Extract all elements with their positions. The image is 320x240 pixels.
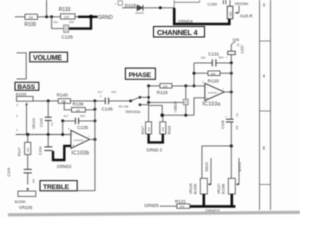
svg-text:NJM4580: NJM4580 <box>208 92 218 94</box>
svg-text:B100K: B100K <box>222 183 226 194</box>
svg-text:7: 7 <box>88 135 90 138</box>
svg-text:R120: R120 <box>208 78 220 83</box>
svg-text:VR104b: VR104b <box>234 2 248 6</box>
svg-text:+: + <box>206 96 208 100</box>
wire input left top <box>15 16 25 18</box>
wire bass long horizontal <box>16 134 71 136</box>
wiper bass arrow <box>25 102 28 134</box>
svg-text:C138: C138 <box>174 105 178 112</box>
svg-text:C135: C135 <box>77 125 88 130</box>
svg-text:C125: C125 <box>62 35 74 41</box>
wire into diode <box>122 7 137 9</box>
svg-text:TREBLE: TREBLE <box>43 184 70 191</box>
svg-text:C136: C136 <box>221 120 225 129</box>
node CH5 arrow <box>231 38 239 44</box>
svg-text:B100K: B100K <box>16 92 27 96</box>
svg-text:GRND 3: GRND 3 <box>146 147 162 152</box>
wire right bus <box>230 63 232 146</box>
wire thick GRND3 U <box>149 134 163 142</box>
capacitor C128 top edge stub <box>115 1 123 6</box>
wire thick down-left to C125 <box>69 17 91 29</box>
svg-text:+: + <box>100 95 102 99</box>
wire plus input <box>194 98 205 115</box>
svg-text:1: 1 <box>16 129 18 132</box>
wire feedback riser <box>193 63 195 86</box>
wire C133 tap <box>149 101 184 103</box>
svg-text:15K: 15K <box>64 15 69 19</box>
node dots long wire <box>26 133 29 136</box>
wire phase column <box>148 86 150 122</box>
svg-text:10K: 10K <box>161 127 165 132</box>
capacitor C134 <box>38 135 52 156</box>
wire diode to channel bus <box>143 7 174 9</box>
svg-text:GRND: GRND <box>98 15 113 21</box>
svg-text:GRND5: GRND5 <box>144 203 159 208</box>
node dot C140 top <box>47 99 50 102</box>
svg-text:AUX-R: AUX-R <box>240 13 253 18</box>
block label VOLUME <box>30 52 68 62</box>
wire pots feed <box>202 146 231 178</box>
svg-text:R133: R133 <box>59 7 71 13</box>
svg-text:2: 2 <box>16 115 18 118</box>
svg-text:5: 5 <box>263 145 266 150</box>
svg-text:R118: R118 <box>168 126 172 134</box>
node dot C131 right <box>230 61 233 64</box>
svg-text:R117: R117 <box>141 126 145 134</box>
svg-text:-: - <box>72 133 73 137</box>
svg-text:VR107: VR107 <box>217 183 221 194</box>
node dot output <box>230 91 233 94</box>
svg-text:PHASE: PHASE <box>129 72 152 79</box>
svg-text:10u: 10u <box>53 20 58 24</box>
svg-text:C149: C149 <box>7 168 11 177</box>
wire op-amp output to bus <box>224 91 231 93</box>
svg-text:IC103a: IC103a <box>203 102 221 108</box>
page edge bottom <box>8 211 300 217</box>
svg-text:C157: C157 <box>241 45 245 54</box>
wire mid horizontal to plus input <box>162 114 194 116</box>
svg-text:C145: C145 <box>102 107 114 112</box>
svg-text:C150: C150 <box>207 2 217 7</box>
svg-text:R140: R140 <box>57 92 68 97</box>
resistor R120 <box>194 71 231 84</box>
switch SW102a <box>119 96 150 114</box>
op-amp IC103b <box>68 128 90 157</box>
svg-text:10K: 10K <box>180 205 185 209</box>
connector strip J3 <box>260 0 271 210</box>
svg-text:B100K: B100K <box>15 200 26 204</box>
capacitor C140 <box>39 101 53 135</box>
svg-text:R119: R119 <box>157 90 168 95</box>
svg-text:4u7: 4u7 <box>64 114 69 118</box>
svg-text:10u: 10u <box>237 42 240 47</box>
capacitor C133 <box>173 86 188 115</box>
capacitor C136 <box>221 112 239 129</box>
svg-text:IC103b: IC103b <box>71 151 89 157</box>
op-amp IC103a <box>202 81 224 107</box>
wire C135 to minus input <box>62 121 64 135</box>
wire thick plus input ground <box>53 146 71 160</box>
svg-text:47u: 47u <box>51 121 54 126</box>
svg-text:VR105: VR105 <box>19 205 33 210</box>
svg-text:56K: 56K <box>211 72 216 76</box>
svg-text:10u: 10u <box>236 112 239 117</box>
svg-text:50V: 50V <box>219 56 224 60</box>
svg-text:4u7: 4u7 <box>98 90 103 94</box>
wiper arrow AUX-R <box>235 6 253 19</box>
svg-text:3: 3 <box>263 2 266 7</box>
wire jog from phase column <box>149 105 163 115</box>
svg-text:63V: 63V <box>32 178 35 183</box>
node dots EQ bus <box>93 99 96 102</box>
svg-text:R139: R139 <box>73 102 84 107</box>
svg-text:63V: 63V <box>69 20 74 24</box>
svg-text:10K: 10K <box>228 11 232 16</box>
wiper EXT3 <box>236 158 243 186</box>
svg-text:+: + <box>226 55 228 59</box>
node big junction <box>89 15 93 19</box>
svg-text:BASS: BASS <box>17 84 35 91</box>
node junction on diode wire <box>159 6 162 9</box>
svg-text:1M: 1M <box>76 108 81 112</box>
svg-text:22p: 22p <box>201 56 206 60</box>
svg-text:+: + <box>115 2 117 6</box>
resistor R147 <box>18 135 31 170</box>
svg-text:2: 2 <box>202 81 204 84</box>
block label PHASE <box>125 68 155 79</box>
wiper treble arrow <box>26 188 29 191</box>
node dots feedback <box>193 72 196 75</box>
svg-text:3: 3 <box>16 104 18 107</box>
svg-text:CHANNEL 4: CHANNEL 4 <box>157 28 198 37</box>
wire thick ground trace top <box>78 16 98 18</box>
node dot phase column <box>147 101 150 104</box>
svg-text:GRND3: GRND3 <box>57 164 72 169</box>
svg-text:B100K: B100K <box>194 183 198 194</box>
wire bass pot out <box>33 100 58 102</box>
node pot pin marks <box>16 104 18 132</box>
potentiometer VR107 <box>217 178 236 194</box>
svg-text:4: 4 <box>263 73 266 78</box>
svg-text:NJM4580: NJM4580 <box>74 140 84 142</box>
node dots C135 wire <box>61 119 64 122</box>
capacitor C149 <box>7 168 36 185</box>
svg-text:10K: 10K <box>163 84 168 88</box>
svg-text:50V: 50V <box>80 114 85 118</box>
potentiometer VR104b <box>227 0 248 19</box>
resistor R100 <box>24 14 37 28</box>
capacitor C157 <box>226 42 245 63</box>
resistor R117 <box>141 122 151 134</box>
svg-text:10K: 10K <box>147 127 151 132</box>
node junction dots top-left <box>45 15 48 18</box>
svg-text:SW102a: SW102a <box>126 110 141 114</box>
svg-text:CH5: CH5 <box>232 38 239 42</box>
diode D118 <box>125 3 144 15</box>
capacitor C135 <box>63 114 95 130</box>
potentiometer VR105 <box>15 191 36 210</box>
svg-text:R121: R121 <box>175 199 186 204</box>
svg-text:1N4148: 1N4148 <box>135 12 144 15</box>
wire volume bracket <box>17 53 27 79</box>
svg-text:6: 6 <box>68 128 70 131</box>
capacitor C150 top stub <box>223 0 226 4</box>
svg-text:15K: 15K <box>28 16 33 20</box>
svg-text:C134: C134 <box>38 146 42 155</box>
svg-text:C140: C140 <box>39 118 43 127</box>
wire EQ bus vertical <box>77 101 95 191</box>
svg-text:R147: R147 <box>18 147 22 156</box>
wire op-amp b output <box>90 138 95 140</box>
resistor R118 <box>160 115 172 134</box>
svg-text:REV3: REV3 <box>205 162 209 171</box>
svg-text:VR106: VR106 <box>189 183 193 194</box>
svg-text:D118: D118 <box>125 3 136 9</box>
potentiometer VR104 bass <box>16 92 36 129</box>
node dot R120 right <box>230 72 233 75</box>
svg-text:MIC LINE: MIC LINE <box>119 107 129 109</box>
resistor R140 <box>57 92 95 103</box>
wire C125 to junction <box>52 17 64 29</box>
resistor R139 <box>64 101 95 113</box>
svg-text:10K: 10K <box>26 148 30 153</box>
svg-text:-: - <box>206 85 207 89</box>
wire vertical from top edge <box>46 0 48 17</box>
wiper REV3 <box>205 158 211 186</box>
wire thick GRND4 trace <box>174 8 229 24</box>
node dots input wire <box>147 84 150 87</box>
wire thick pots ground <box>190 194 236 206</box>
svg-text:63V: 63V <box>236 125 239 130</box>
wire R100 to R133 <box>38 16 61 18</box>
svg-text:+: + <box>72 144 74 148</box>
svg-text:63V: 63V <box>111 90 116 94</box>
svg-text:VOLUME: VOLUME <box>33 55 62 62</box>
node dots mid wire <box>160 113 164 117</box>
svg-text:+: + <box>225 115 227 119</box>
svg-text:R100: R100 <box>24 22 36 28</box>
block label TREBLE <box>40 181 77 191</box>
resistor R121 <box>160 199 190 209</box>
svg-text:1: 1 <box>223 88 225 91</box>
capacitor C145 <box>95 90 130 111</box>
node dot pots feed <box>230 144 233 147</box>
resistor R133 <box>59 7 78 19</box>
block label BASS <box>15 82 39 91</box>
capacitor C131 feedback <box>194 51 231 66</box>
svg-text:GRND4: GRND4 <box>178 19 193 24</box>
svg-text:VR104: VR104 <box>32 118 36 129</box>
resistor R119 <box>149 84 205 95</box>
potentiometer VR106 <box>189 178 208 194</box>
block label CHANNEL 4 <box>154 27 205 38</box>
wire thin top box C150 <box>174 0 199 8</box>
capacitor C125 <box>53 20 74 40</box>
svg-text:15K: 15K <box>61 100 66 104</box>
